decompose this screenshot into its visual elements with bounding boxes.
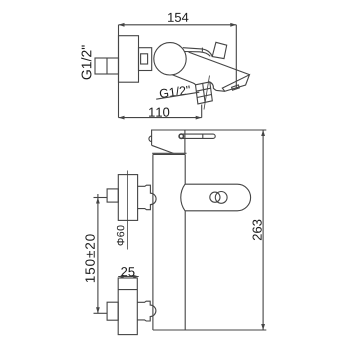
extension line wall (left, top view) (118, 25, 120, 118)
knob circle (cartridge cap, top view) (154, 43, 186, 75)
lever pivot (front view) (179, 134, 183, 138)
extension line right (spout end, top view) (235, 25, 237, 89)
valve body (top view) (139, 48, 152, 71)
hose nut G1/2 (top view) (196, 76, 213, 110)
text 263 (height dim) (253, 220, 262, 240)
text 25 (flange depth dim) (121, 267, 134, 276)
dimension 110 line (119, 105, 202, 120)
text Φ60 (flange diameter) (117, 225, 124, 245)
lower wall flange (front view) (118, 278, 137, 335)
text 150±20 (union spacing dim) (85, 234, 94, 282)
spout end face cap (top view) (222, 75, 249, 92)
lever grip (top view) (212, 42, 227, 58)
spout escutcheon (front view) (181, 184, 251, 211)
wall flange (top view) (119, 36, 139, 82)
cap pivot bump (front view) (149, 136, 152, 141)
dimension 25 line (118, 275, 139, 278)
body (front view) (153, 154, 185, 330)
upper wall pipe (front view) (107, 189, 118, 202)
dimension 154 line (119, 23, 237, 27)
text G1/2 hose outlet label (tilted) (159, 85, 190, 98)
cartridge cap (front view) (152, 130, 187, 153)
spout top edge (top view) (189, 52, 250, 75)
dimension 150±20 lines (94, 194, 108, 313)
spout bottom edge (top view) (172, 75, 225, 92)
aerator circles (front view) (210, 192, 227, 204)
lever arm (top view) (183, 48, 213, 57)
extension line 263 top (front view) (185, 129, 266, 131)
upper union nut (front view) (138, 185, 156, 210)
lever rod (front view) (179, 134, 215, 138)
text 110 (wall-to-outlet dim) (149, 108, 169, 117)
upper wall flange (front view) (118, 171, 137, 250)
text G1/2 inlet label (rotated) (81, 45, 91, 79)
dimension 263 line (261, 130, 265, 330)
body bottom + extension line 263 bottom (front view) (153, 329, 266, 331)
leader underline for hose outlet label (156, 92, 199, 99)
lower union nut (front view) (137, 301, 156, 321)
text 154 (top width dim) (168, 13, 188, 22)
lower wall pipe (front view) (107, 302, 118, 320)
wall pipe (top view) (95, 58, 119, 74)
